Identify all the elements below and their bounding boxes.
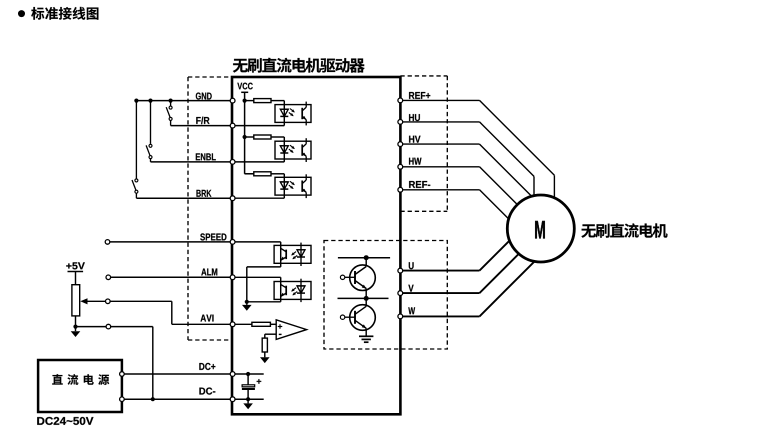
terminal DC+ [230,372,235,377]
optocoupler U3 LED [283,174,285,198]
terminal power DC- [120,397,125,402]
wire DC- internal [232,398,264,400]
DC power supply box 直流电源 [38,360,122,412]
wire U5 emitter return [247,301,281,303]
wire +5V to pot [75,272,77,285]
optocoupler U3 light arrows [290,181,294,184]
+5V supply bar [68,271,84,273]
optocoupler U5 light arrows [292,288,296,291]
label HW [409,158,421,165]
terminal BRK [230,196,235,201]
VCC label [237,83,252,90]
wire W to motor [400,315,479,317]
op-amp minus input label [279,334,282,335]
switch S2 (ENBL) [150,101,152,144]
optocoupler U1 box [275,105,311,123]
junction Q2 collector [364,296,369,301]
motor M circle [507,195,574,262]
left terminals dashed box [187,77,189,340]
transistor Q1 [350,265,376,291]
label V [408,285,413,292]
junction Q1 collector [364,255,369,260]
resistor R2 [245,136,254,138]
label DC- [199,388,215,395]
wire bridge mid rail [338,297,389,299]
label AVI [201,315,214,322]
terminal ENBL [230,160,235,165]
terminal DC- [230,397,235,402]
wire REF- to motor [400,189,479,191]
wire ENBL [151,161,233,163]
optocoupler U4 LED [300,243,302,266]
transistor Q2 [350,305,376,331]
optocoupler U2 LED [283,137,285,162]
wire pot bottom to DC- [76,326,107,328]
terminal pot-return external [106,324,111,329]
label BRK [196,190,211,197]
junction DC- / ground [246,397,250,401]
wire bridge top rail [338,257,390,259]
junction GND bus / S2 [148,99,152,103]
terminal ALM external [106,275,111,280]
label DC+ [199,363,215,370]
wire DC+ internal [232,373,264,375]
terminal REF+ [398,98,403,103]
label HU [409,114,420,121]
title bullet [18,10,25,17]
wire U4 emitter return [247,266,281,268]
terminal W [398,314,403,319]
terminal SPEED [230,240,235,245]
title text 标准接线图 [31,7,98,20]
label GND [196,93,212,100]
wire HU to motor [400,121,479,123]
terminal power DC+ [120,372,125,377]
optocoupler U1 phototransistor [301,108,303,119]
junction VCC / R2 [243,135,247,139]
wire wiper to AVI [110,300,172,302]
label W [408,307,415,314]
label DC24~50V [37,417,93,425]
op-amp U6 [276,320,306,340]
optocoupler U2 phototransistor [301,144,303,155]
optocoupler U3 phototransistor [301,181,303,192]
wire AVI internal [232,323,252,325]
wire SPEED [110,241,232,243]
resistor R1 [245,100,254,102]
optocoupler U5 phototransistor [280,277,282,302]
terminal HU [398,120,403,125]
wire HV to motor [400,143,479,145]
wire ALM internal [232,276,281,278]
optocoupler U5 LED [300,279,302,302]
switch S3 (BRK) [135,101,137,179]
optocoupler U2 box [275,141,311,159]
capacitor C1 [247,374,249,385]
terminal Q1 base [340,275,344,279]
junction DC+ / C1 [246,372,250,376]
optocoupler U2 light arrows [290,145,294,148]
wire ALM [111,276,232,278]
terminal AVI [230,322,235,327]
potentiometer wiper arrow [86,300,106,302]
junction DC- return [151,397,155,401]
terminal V [398,291,403,296]
terminal SPEED external [105,240,110,245]
optocoupler U4 box [274,245,311,263]
wire ENBL internal [232,161,284,163]
wire BRK [136,197,232,199]
junction opto ground [245,300,249,304]
wire V to motor [400,292,479,294]
terminal F/R [230,123,235,128]
optocoupler U4 phototransistor [280,242,282,267]
wire HW to motor [400,166,479,168]
wire REF+ to motor [400,99,479,101]
terminal U [398,268,403,273]
motor letter M [535,221,545,238]
hall terminals dashed box [400,75,447,77]
resistor R3 [245,173,254,175]
wire SPEED internal [232,241,281,243]
terminal HV [398,142,403,147]
wire VCC to R3 [245,173,254,175]
label SPEED [200,233,226,240]
label F/R [196,117,209,124]
ground op-amp [264,352,266,357]
wire U to motor [400,270,479,272]
label REF+ [409,92,430,99]
terminal Q2 base [340,315,344,319]
optocoupler U3 box [275,177,311,195]
wire DC- [122,398,232,400]
junction GND bus / S1 [169,99,173,103]
resistor R4 (AVI input) [252,322,271,326]
power supply label 直流电源 [52,374,109,385]
VCC supply bar [241,91,248,93]
junction VCC / R1 [243,99,247,103]
output bridge dashed box [324,241,447,350]
terminal wiper external [106,299,111,304]
label HV [409,136,420,143]
potentiometer RP body [72,285,80,316]
+5V label [66,262,85,269]
driver title 无刷直流电机驱动器 [233,58,365,73]
terminal GND [230,98,235,103]
terminal ALM [230,275,235,280]
switch S1 (F/R) [170,101,172,106]
label ALM [201,269,217,276]
junction GND bus / S3 [134,99,138,103]
ground optos [246,302,248,305]
wire DC+ [122,373,232,375]
wire GND bus [136,100,232,102]
VCC rail wire [244,92,246,174]
label ENBL [196,153,216,160]
terminal REF- [398,187,403,192]
op-amp plus input label [278,324,282,328]
ground DC- [247,399,249,403]
junction pot bottom [73,325,77,329]
label U [409,262,414,269]
optocoupler U4 light arrows [292,252,296,255]
resistor R5 (to ground) [262,338,267,352]
driver box 无刷直流电机驱动器 [232,77,400,414]
optocoupler U1 light arrows [290,109,294,112]
motor label 无刷直流电机 [581,223,667,237]
wire pot bottom [75,316,77,327]
optocoupler U1 LED [283,101,285,126]
wire op-amp feedback [265,333,276,335]
ground pot [75,327,77,332]
wire BRK internal [232,197,284,199]
terminal HW [398,164,403,169]
wire F/R [171,125,232,127]
wire F/R internal [232,125,284,127]
capacitor C1 plus label [257,379,262,384]
label REF- [409,181,430,188]
optocoupler U5 box [274,282,311,300]
earth ground Q2 emitter [359,335,373,337]
